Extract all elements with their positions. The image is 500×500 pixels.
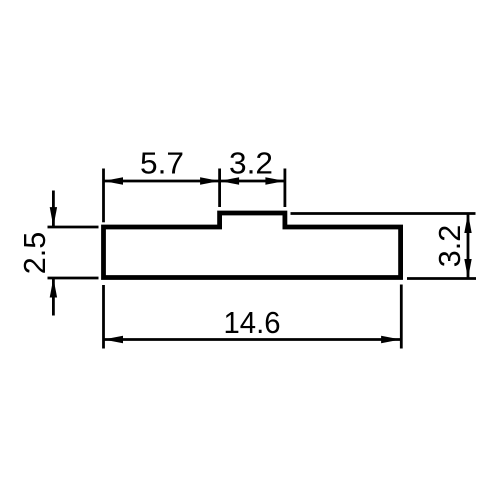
arrowhead 14.6 right <box>381 336 401 343</box>
arrowhead 2.5 top (pointing down) <box>50 207 57 227</box>
arrowhead 3.2 right bottom (pointing down) <box>464 259 471 279</box>
dimension line 2.5 lower segment <box>52 278 55 316</box>
dimension line 2.5 upper segment <box>52 191 55 227</box>
arrowhead 3.2 right top (pointing up) <box>464 214 471 234</box>
svg-text:2.5: 2.5 <box>17 232 52 275</box>
arrowhead 14.6 left <box>104 336 124 343</box>
extension line left lower (x=103.5) <box>102 285 105 349</box>
arrowhead 5.7 left <box>104 177 124 184</box>
extension line bump left (x=219.6) <box>218 169 221 208</box>
extension line 3.2 top right (horizontal) <box>291 212 476 215</box>
dimension line bottom (14.6) <box>104 338 401 341</box>
profile outline (stepped cross-section) <box>104 213 401 278</box>
dimension line top (5.7 and 3.2) <box>104 180 285 183</box>
svg-text:14.6: 14.6 <box>224 305 281 340</box>
arrowhead 5.7 right <box>200 177 220 184</box>
arrowhead 3.2 right <box>265 177 285 184</box>
extension line right lower (x=401.3) <box>400 285 403 349</box>
extension line 3.2 bottom right (horizontal) <box>407 277 476 280</box>
extension line 2.5 bottom (horizontal) <box>48 277 99 280</box>
arrowhead 3.2 left <box>220 177 240 184</box>
arrowhead 2.5 bottom (pointing up) <box>50 278 57 298</box>
svg-text:3.2: 3.2 <box>432 225 467 268</box>
extension line 2.5 top (horizontal) <box>48 226 99 229</box>
extension line bump right (x=284.9) <box>283 169 286 208</box>
dimension line 3.2 right <box>467 214 470 279</box>
extension line left upper (x=103.5) <box>102 169 105 223</box>
svg-text:5.7: 5.7 <box>140 146 184 181</box>
svg-text:3.2: 3.2 <box>229 146 273 181</box>
